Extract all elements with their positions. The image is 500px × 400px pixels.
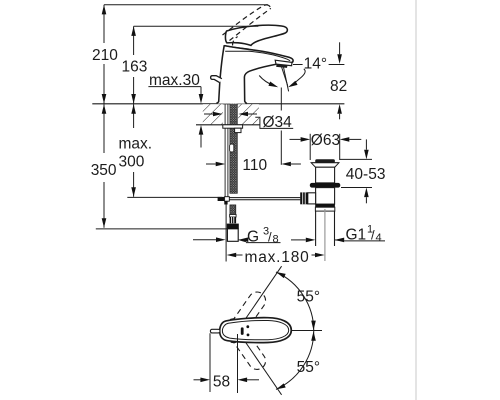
mounting nut — [235, 128, 241, 132]
T junction — [218, 197, 225, 201]
swivel arrow left — [259, 76, 275, 87]
top view: 55 deg leader bottom — [238, 331, 282, 395]
spout top — [224, 46, 293, 63]
hose nut — [227, 224, 239, 229]
drain body lower — [316, 188, 335, 205]
svg-text:/: / — [371, 228, 375, 243]
dimension 110 — [280, 88, 282, 111]
svg-text:300: 300 — [119, 154, 145, 171]
threaded shank — [230, 102, 237, 193]
top view: handle marks — [241, 327, 244, 335]
countertop hatch right — [238, 104, 259, 124]
dimension 210 — [103, 5, 105, 104]
top view: handle inner — [222, 320, 288, 339]
svg-text:163: 163 — [122, 59, 148, 76]
hose hex section — [230, 217, 237, 223]
lever handle — [225, 25, 287, 45]
label G3/8 — [193, 239, 216, 241]
pop-up rod knob — [211, 76, 222, 83]
drain flange — [311, 163, 339, 167]
drain rod knob — [300, 192, 308, 204]
drain tailpipe — [315, 211, 317, 246]
top view: handle outer — [220, 318, 292, 343]
svg-text:40-53: 40-53 — [346, 166, 386, 183]
hose white band — [230, 215, 237, 218]
spout underside — [244, 64, 276, 77]
dimension diam 63 — [309, 134, 311, 160]
svg-text:8: 8 — [273, 234, 279, 246]
pop-up horizontal rod — [229, 197, 300, 199]
drain flange top line — [311, 162, 339, 164]
dimension 350 — [103, 104, 105, 228]
top view: swing arc — [276, 272, 314, 389]
svg-text:max.: max. — [119, 136, 153, 153]
drain centerline — [324, 209, 326, 261]
dimension max.180 — [225, 204, 227, 262]
faucet body — [216, 45, 292, 103]
drain body upper — [316, 167, 335, 183]
aerator outlet — [276, 64, 287, 68]
drain dark band — [315, 204, 335, 207]
countertop bottom line — [196, 124, 260, 126]
top view: stub — [210, 329, 220, 333]
top view: 55 deg leader top — [238, 266, 282, 330]
countertop surface line — [92, 103, 344, 105]
extension line top (210) — [104, 4, 268, 6]
svg-text:82: 82 — [330, 78, 347, 95]
svg-text:Ø34: Ø34 — [263, 114, 293, 131]
svg-text:14°: 14° — [304, 55, 327, 72]
svg-text:110: 110 — [242, 157, 267, 174]
mounting washer — [223, 125, 243, 128]
hose G3/8 end — [227, 229, 238, 242]
drain white band — [315, 207, 334, 211]
extension line rod level — [127, 196, 222, 198]
cartridge dome — [224, 46, 249, 49]
drain side port — [308, 193, 316, 204]
top view: dashed handle rotated down — [222, 315, 269, 372]
svg-text:55°: 55° — [297, 288, 320, 305]
svg-text:210: 210 — [92, 47, 118, 64]
dimension max.300 — [133, 104, 135, 197]
faucet lift rod (below deck) — [225, 102, 228, 197]
spout inner line — [225, 51, 290, 61]
dimension 58 — [209, 333, 211, 392]
drain o-ring — [310, 183, 341, 188]
dimension 82 — [339, 42, 341, 54]
label G1 1/4 — [291, 239, 306, 241]
svg-text:58: 58 — [213, 374, 230, 391]
right separator line — [415, 0, 417, 400]
top view: dashed handle rotated up — [222, 289, 269, 346]
top view: centerline — [292, 330, 323, 332]
swivel arrow right / 14 deg leader — [290, 69, 305, 86]
dimension 40-53 — [340, 158, 372, 160]
drain plug cap — [315, 159, 335, 163]
svg-text:55°: 55° — [297, 359, 320, 376]
shank slot — [230, 144, 234, 152]
svg-text:4: 4 — [376, 232, 382, 244]
svg-text:max.180: max.180 — [245, 249, 310, 266]
dimension 163 — [133, 26, 135, 103]
extension line lever (163) — [134, 25, 259, 27]
water stream lines — [281, 67, 287, 86]
svg-text:Ø63: Ø63 — [311, 132, 340, 149]
aerator — [275, 60, 292, 65]
countertop hatch left — [203, 104, 223, 124]
svg-text:350: 350 — [91, 162, 117, 179]
dimension diam 34 — [204, 113, 213, 115]
flex hose thread — [230, 205, 236, 215]
extension line hose end level — [96, 228, 228, 230]
dashed raised lever — [223, 5, 271, 46]
